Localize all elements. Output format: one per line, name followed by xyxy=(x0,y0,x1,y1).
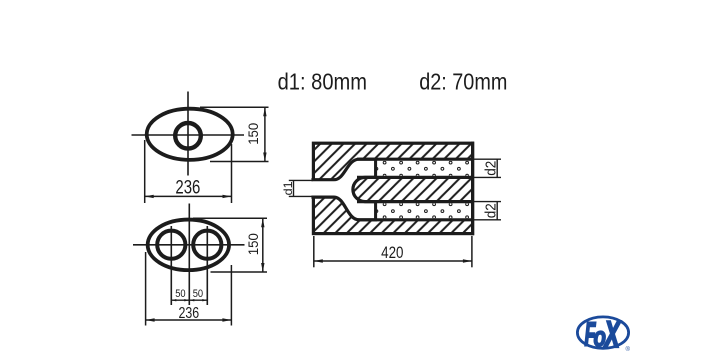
svg-text:150: 150 xyxy=(245,123,261,145)
svg-text:150: 150 xyxy=(245,233,261,255)
svg-text:d2: d2 xyxy=(482,203,499,218)
svg-text:®: ® xyxy=(626,346,631,353)
svg-text:236: 236 xyxy=(175,177,200,198)
svg-text:X: X xyxy=(603,313,621,355)
svg-text:d1: 80mm: d1: 80mm xyxy=(278,68,367,94)
svg-text:420: 420 xyxy=(381,244,403,262)
svg-text:50: 50 xyxy=(175,288,185,300)
svg-text:50: 50 xyxy=(193,288,203,300)
svg-text:d1: d1 xyxy=(281,181,295,195)
svg-text:236: 236 xyxy=(178,305,199,322)
svg-text:d2: d2 xyxy=(482,161,499,176)
svg-text:d2: 70mm: d2: 70mm xyxy=(419,68,507,94)
